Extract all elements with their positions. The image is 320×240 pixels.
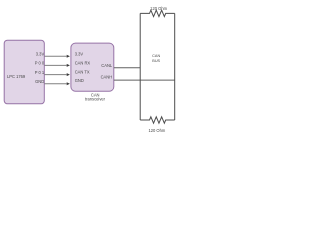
- wire 3.3V LPC to transceiver: [45, 55, 70, 58]
- svg-text:CAN TX: CAN TX: [75, 70, 90, 75]
- svg-text:P 0 0: P 0 0: [35, 61, 45, 66]
- svg-text:120 Ohm: 120 Ohm: [150, 6, 167, 11]
- wire GND to GND: [45, 82, 70, 85]
- bus wire left vertical (CANL rail): [139, 13, 141, 120]
- svg-text:GND: GND: [75, 78, 84, 83]
- microcontroller U1 LPC 1769 block: [4, 40, 44, 104]
- wire P0.0 to CAN RX: [45, 64, 70, 67]
- svg-text:3.3V: 3.3V: [36, 51, 45, 56]
- svg-text:CANL: CANL: [101, 63, 113, 68]
- svg-text:P 0 1: P 0 1: [35, 70, 45, 75]
- svg-text:CANH: CANH: [101, 75, 113, 80]
- svg-text:CAN: CAN: [152, 54, 160, 58]
- svg-text:transceiver: transceiver: [85, 96, 106, 101]
- wire CANL to bus: [114, 67, 140, 69]
- svg-text:LPC 1769: LPC 1769: [7, 74, 26, 79]
- wire P0.1 to CAN TX: [45, 73, 70, 76]
- wire CANH to bus: [114, 79, 175, 81]
- resistor R1 120 Ohm (top termination): [140, 10, 175, 16]
- resistor R2 120 Ohm (bottom termination): [140, 117, 175, 123]
- svg-text:120 Ohm: 120 Ohm: [148, 128, 165, 133]
- svg-text:CAN RX: CAN RX: [75, 61, 91, 66]
- CAN transceiver U2 block: [71, 43, 114, 91]
- svg-text:BUS: BUS: [152, 59, 160, 63]
- svg-text:GND: GND: [35, 79, 44, 84]
- svg-text:3.3V: 3.3V: [75, 52, 84, 57]
- bus wire right vertical (CANH rail): [174, 13, 176, 120]
